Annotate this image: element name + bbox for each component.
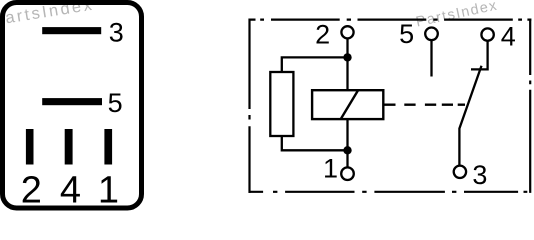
wire: lower branch to resistor <box>282 136 348 150</box>
svg-text:1: 1 <box>98 170 119 212</box>
svg-text:5: 5 <box>399 19 414 49</box>
terminal 2 pin <box>26 129 34 165</box>
border bottom <box>249 191 528 193</box>
junction node upper <box>343 53 351 61</box>
svg-text:3: 3 <box>109 18 124 48</box>
wire: coil top feed (pin2 to coil) <box>346 38 348 90</box>
svg-text:1: 1 <box>323 154 338 184</box>
pin 2 terminal <box>341 26 353 38</box>
svg-text:2: 2 <box>21 170 42 212</box>
pin 4 terminal <box>481 28 493 40</box>
svg-text:4: 4 <box>60 170 81 212</box>
schematic enclosure dash-dot border <box>249 19 532 193</box>
resistor (parallel with coil) <box>270 72 293 136</box>
border top <box>249 19 532 21</box>
svg-text:5: 5 <box>108 88 123 118</box>
pin 5 stub wire <box>430 40 432 76</box>
pin 1 terminal <box>341 167 354 180</box>
terminal 1 pin <box>104 129 112 165</box>
svg-text:4: 4 <box>501 21 516 51</box>
terminal 5 blade <box>42 98 102 105</box>
border left <box>248 19 250 193</box>
svg-text:2: 2 <box>315 20 330 50</box>
junction node lower <box>343 146 351 154</box>
switch blade (pin3 movable contact) <box>459 66 481 168</box>
pin 3 terminal <box>454 166 466 178</box>
relay body outline (left pinout view) <box>3 3 142 209</box>
wire: coil bottom feed (coil to pin1) <box>346 119 348 167</box>
terminal 4 pin <box>65 129 73 165</box>
mechanical link (dashed) <box>384 104 466 106</box>
terminal 3 blade <box>42 27 101 34</box>
wire: upper branch to resistor <box>282 57 348 72</box>
svg-text:3: 3 <box>472 160 487 190</box>
border right <box>529 19 531 193</box>
relay coil <box>312 90 383 119</box>
pin 5 terminal <box>425 28 438 41</box>
pin 4 fixed contact <box>471 41 488 70</box>
